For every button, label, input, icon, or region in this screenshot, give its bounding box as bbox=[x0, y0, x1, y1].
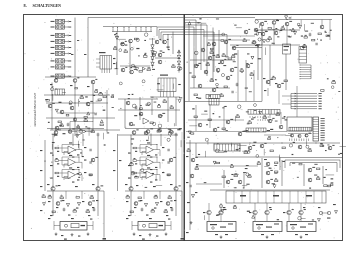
svg-text:8.: 8. bbox=[24, 3, 27, 8]
svg-text:SCHALTUNGEN: SCHALTUNGEN bbox=[33, 4, 62, 8]
svg-text:GRUNDGERÄT/BASIC UNIT: GRUNDGERÄT/BASIC UNIT bbox=[33, 92, 37, 126]
